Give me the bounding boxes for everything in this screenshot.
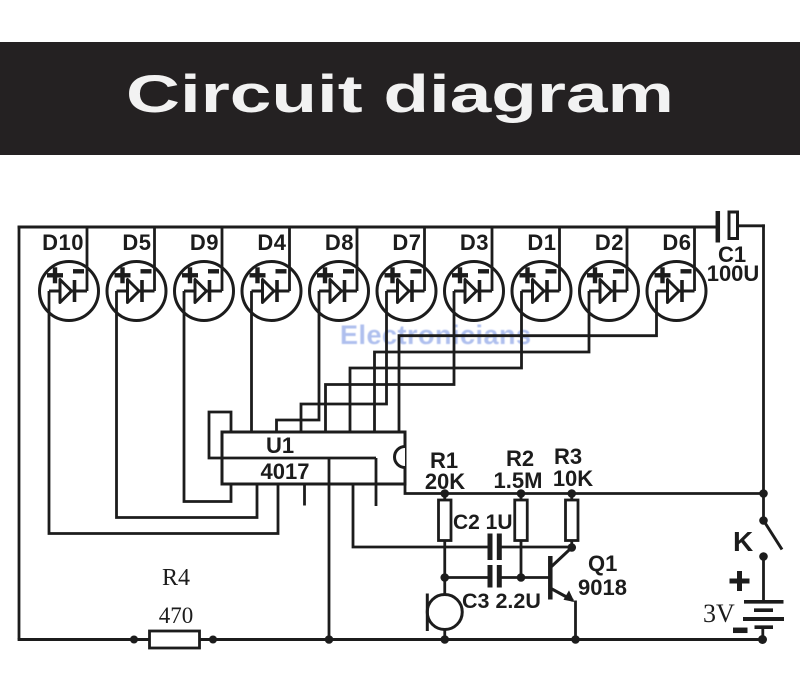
wire D3 cathode to top rail xyxy=(491,227,494,291)
wire D4 anode to U1 xyxy=(250,291,253,432)
svg-text:9018: 9018 xyxy=(578,575,627,600)
svg-text:D6: D6 xyxy=(662,230,691,255)
pin U1 stub 2 xyxy=(375,458,378,506)
resistor R2 xyxy=(520,494,523,501)
junction battery / bottom rail xyxy=(758,635,767,644)
wire U1 reset tab xyxy=(209,412,231,458)
junction emitter / bottom rail xyxy=(571,635,580,644)
junction R3 top xyxy=(567,489,576,498)
svg-text:1.5M: 1.5M xyxy=(494,468,543,493)
svg-text:D7: D7 xyxy=(392,230,421,255)
transistor Q1 base bar xyxy=(548,556,553,600)
svg-text:100U: 100U xyxy=(707,261,760,286)
U1 notch xyxy=(395,447,405,468)
wire D3 anode to U1 xyxy=(326,291,455,432)
wire D9 cathode to top rail xyxy=(221,227,224,291)
svg-text:D3: D3 xyxy=(460,230,489,255)
battery 3V plate long1 xyxy=(744,600,784,604)
wire U1 pin to C2 xyxy=(353,484,488,547)
svg-text:3V: 3V xyxy=(703,599,735,628)
svg-text:D10: D10 xyxy=(42,230,84,255)
wire D5 anode to U1 xyxy=(117,291,258,518)
wire U1 ground pin to bottom rail xyxy=(328,458,331,640)
wire right border (C1 to switch) xyxy=(762,224,765,493)
wire D8 anode to U1 xyxy=(277,291,320,432)
junction R3 / collector / C2 xyxy=(567,543,576,552)
svg-text:D8: D8 xyxy=(325,230,354,255)
switch K xyxy=(762,494,765,519)
junction R4 left xyxy=(130,636,138,644)
Q1 emitter with arrow xyxy=(551,589,573,601)
wire D6 cathode to top rail xyxy=(693,227,696,291)
LED D4 xyxy=(242,262,301,321)
wire top rail xyxy=(18,226,718,229)
svg-text:Circuit diagram: Circuit diagram xyxy=(126,65,674,124)
wire U1 to V+ rail xyxy=(405,484,764,494)
Q1 collector xyxy=(551,548,572,568)
microphone MIC xyxy=(427,595,462,630)
LED D8 xyxy=(310,262,369,321)
svg-text:20K: 20K xyxy=(425,469,465,494)
wire C2 to R3/collector node xyxy=(502,546,572,549)
junction R2 top xyxy=(517,489,526,498)
op IC U1 4017 body xyxy=(222,432,405,484)
LED D6 xyxy=(647,262,706,321)
battery plate long2 xyxy=(743,617,784,621)
wire battery minus to rail xyxy=(761,627,764,639)
svg-text:D5: D5 xyxy=(122,230,151,255)
capacitor C2 xyxy=(488,534,493,561)
resistor R1 xyxy=(443,494,446,501)
svg-text:C3 2.2U: C3 2.2U xyxy=(462,589,541,613)
junction R2 / base wire xyxy=(517,573,526,582)
junction R1 top xyxy=(440,489,449,498)
LED D5 xyxy=(107,262,166,321)
wire D4 cathode to top rail xyxy=(288,227,291,291)
LED D1 xyxy=(512,262,571,321)
wire D10 anode to U1 xyxy=(49,291,278,534)
svg-text:K: K xyxy=(733,526,753,557)
wire D8 cathode to top rail xyxy=(356,227,359,291)
wire D9 anode to U1 xyxy=(184,291,231,502)
wire mic to bottom rail xyxy=(443,630,446,640)
U1 midline xyxy=(222,457,376,460)
svg-text:10K: 10K xyxy=(553,466,593,491)
svg-text:R4: R4 xyxy=(162,565,190,591)
junction V+ rail / switch xyxy=(759,489,768,498)
svg-text:470: 470 xyxy=(159,603,194,628)
wire D5 cathode to top rail xyxy=(153,227,156,291)
title banner xyxy=(0,42,800,155)
junction R1 / C3 xyxy=(440,573,449,582)
wire D7 cathode to top rail xyxy=(423,227,426,291)
wire left border xyxy=(18,226,21,640)
svg-text:4017: 4017 xyxy=(261,459,310,484)
svg-text:D1: D1 xyxy=(527,230,556,255)
battery plate short1 xyxy=(754,608,773,612)
junction R4 right xyxy=(209,636,217,644)
junction mic / bottom rail xyxy=(440,635,449,644)
svg-text:U1: U1 xyxy=(266,433,294,458)
LED D2 xyxy=(580,262,639,321)
wire D7 anode to U1 xyxy=(301,291,387,432)
resistor R4 xyxy=(150,631,200,648)
wire D2 cathode to top rail xyxy=(626,227,629,291)
wire D10 cathode to top rail xyxy=(86,227,89,291)
capacitor C3 xyxy=(488,565,493,588)
label battery plus xyxy=(730,579,750,584)
svg-text:D4: D4 xyxy=(257,230,286,255)
svg-text:D2: D2 xyxy=(595,230,624,255)
label battery minus xyxy=(733,628,748,634)
svg-text:C2 1U: C2 1U xyxy=(453,511,513,534)
LED D9 xyxy=(175,262,234,321)
svg-text:D9: D9 xyxy=(190,230,219,255)
LED D3 xyxy=(445,262,504,321)
capacitor C1 xyxy=(716,211,721,243)
svg-text:Q1: Q1 xyxy=(588,551,617,576)
junction U1 ground xyxy=(325,635,334,644)
wire D2 anode to U1 xyxy=(375,291,590,432)
wire bottom rail xyxy=(18,638,763,641)
battery plate short2 xyxy=(755,625,774,629)
LED D7 xyxy=(377,262,436,321)
pin U1 stub 1 xyxy=(303,484,306,506)
wire C3 to Q1 base xyxy=(502,576,550,579)
wire D6 anode to U1 xyxy=(399,291,657,432)
resistor R3 xyxy=(570,494,573,501)
wire C1 right lead xyxy=(737,224,765,227)
wire R1 node to C3 xyxy=(445,576,488,579)
wire D1 anode to U1 xyxy=(350,291,522,432)
wire D1 cathode to top rail xyxy=(558,227,561,291)
LED D10 xyxy=(40,262,99,321)
wire Q1 emitter to bottom rail xyxy=(574,601,577,640)
